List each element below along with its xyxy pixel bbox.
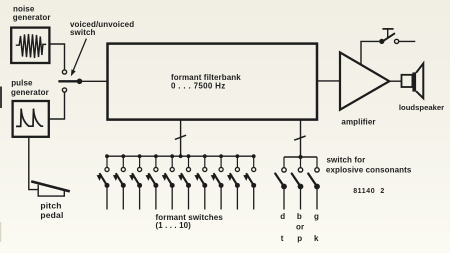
formant bus — [107, 155, 254, 157]
formant switch 1 — [97, 154, 110, 209]
explosive switch d/t — [275, 157, 287, 210]
svg-text:pulse: pulse — [11, 78, 33, 87]
svg-text:amplifier: amplifier — [341, 118, 375, 127]
loudspeaker horn — [416, 63, 423, 98]
svg-text:d: d — [280, 212, 285, 221]
drop from filterbank to explosive bus — [300, 120, 302, 158]
pitch pedal — [38, 185, 64, 196]
svg-text:noise: noise — [13, 4, 35, 13]
bus slash right — [294, 136, 305, 140]
formant switches (1...10) — [97, 154, 257, 209]
formant switch 4 — [146, 154, 159, 209]
svg-text:switch for: switch for — [327, 156, 366, 165]
junction dot explosive bus — [299, 155, 303, 159]
pulse waveform — [16, 109, 43, 127]
push switch arm — [381, 33, 395, 42]
wire pulse box to lower contact — [49, 92, 65, 119]
junction dot on bus — [179, 154, 183, 158]
formant switch 7 — [194, 154, 207, 209]
formant switch 6 — [178, 154, 191, 209]
push switch actuator stem — [387, 29, 389, 37]
formant switch 9 — [227, 154, 240, 209]
noise waveform — [16, 34, 46, 58]
formant switch 3 — [129, 154, 142, 209]
svg-text:pitch: pitch — [40, 201, 61, 211]
wire noise box to upper contact — [49, 44, 64, 70]
formant switch 8 — [211, 154, 224, 209]
wire filterbank to amplifier — [317, 80, 339, 82]
svg-text:t: t — [281, 234, 284, 243]
scan artifact left edge blob — [0, 87, 2, 109]
explosive bus — [284, 156, 317, 158]
noise generator box — [11, 28, 49, 63]
pivot dot — [77, 79, 83, 85]
formant switch 5 — [162, 154, 175, 209]
pulse generator box — [13, 101, 49, 137]
loudspeaker driver box — [402, 75, 413, 87]
svg-text:81140 2: 81140 2 — [353, 188, 385, 195]
push switch pivot — [379, 39, 384, 44]
drop from filterbank to formant bus — [180, 120, 182, 157]
contact circle upper — [62, 70, 66, 74]
switch arm voiced/unvoiced — [58, 80, 79, 82]
svg-text:generator: generator — [11, 88, 49, 97]
formant switch 2 — [113, 154, 126, 209]
svg-text:p: p — [297, 234, 302, 243]
svg-text:or: or — [296, 223, 304, 232]
loudspeaker throat bar — [412, 72, 416, 91]
explosive switch g/k — [308, 157, 320, 210]
formant switch 10 — [243, 154, 256, 209]
svg-text:(1 . . . 10): (1 . . . 10) — [156, 221, 192, 230]
svg-text:0 . . . 7500 Hz: 0 . . . 7500 Hz — [171, 81, 226, 90]
wire pulse box to pitch pedal — [29, 137, 39, 190]
svg-text:generator: generator — [13, 13, 51, 22]
arrow to switch — [73, 39, 86, 71]
wire from contact — [399, 40, 416, 42]
wire pivot to filterbank — [80, 80, 107, 82]
wire amp to loudspeaker — [389, 80, 401, 82]
explosive switch b/p — [292, 157, 304, 210]
svg-text:switch: switch — [70, 28, 96, 37]
svg-text:b: b — [297, 212, 302, 221]
svg-text:pedal: pedal — [40, 210, 63, 220]
arrowhead — [71, 69, 76, 76]
push switch actuator bar — [382, 28, 393, 30]
svg-text:explosive consonants: explosive consonants — [326, 165, 412, 174]
svg-text:g: g — [314, 212, 319, 221]
scan artifact left edge streak — [0, 222, 1, 242]
push switch contact — [395, 39, 399, 43]
svg-text:k: k — [314, 234, 319, 243]
amplifier triangle — [340, 52, 389, 109]
svg-text:loudspeaker: loudspeaker — [399, 103, 444, 112]
formant filterbank box — [108, 44, 318, 120]
wire amp to mute switch — [361, 41, 379, 65]
contact circle lower — [62, 88, 66, 92]
bus slash left — [175, 135, 186, 139]
